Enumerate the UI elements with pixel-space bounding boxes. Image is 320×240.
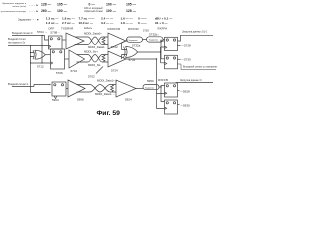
svg-text:7.7 нс ——: 7.7 нс —— <box>79 17 96 21</box>
svg-text:TXDRVR: TXDRVR <box>61 27 74 31</box>
svg-text:0 —: 0 — <box>89 3 96 7</box>
svg-text:MDDI_Str+: MDDI_Str+ <box>84 49 98 53</box>
svg-text:на скорости 2x: на скорости 2x <box>8 42 26 45</box>
svg-text:Задержка: Задержка <box>149 40 159 42</box>
wire xor inputs taps <box>122 42 125 60</box>
flip-flop 5730 <box>165 55 178 69</box>
svg-text:100 —: 100 — <box>57 9 68 13</box>
transistor: TX driver triangle 5710 <box>69 50 85 68</box>
svg-text:260 —: 260 — <box>41 9 52 13</box>
svg-text:100 —: 100 — <box>106 3 117 7</box>
svg-text:Задержка: Задержка <box>145 87 155 89</box>
gate: XOR 5734 <box>124 47 138 58</box>
flip-flop 5904 <box>52 82 66 102</box>
wire ffb q out <box>176 82 213 85</box>
flip-flop 5706 <box>51 49 65 75</box>
svg-text:MDDI_Str-: MDDI_Str- <box>88 63 101 67</box>
svg-text:5904: 5904 <box>52 98 59 102</box>
svg-text:—5730: —5730 <box>181 58 191 62</box>
resistor termination 0 <box>102 37 105 44</box>
label 5702 arrow <box>88 67 103 79</box>
svg-text:—5728: —5728 <box>181 44 191 48</box>
svg-text:Выходной сигнал со смещением: Выходной сигнал со смещением <box>183 66 217 69</box>
wire dff1 to drv <box>66 88 68 90</box>
transistor: RX receiver triangle 5722 <box>108 33 126 49</box>
svg-text:5732a: 5732a <box>132 44 141 48</box>
wire clock branch to xor <box>41 36 43 64</box>
svg-text:1.8 нс —: 1.8 нс — <box>62 17 76 21</box>
wire ffa q out <box>178 35 214 41</box>
svg-text:MDDI_Data0+: MDDI_Data0+ <box>84 32 102 36</box>
resistor termination str <box>102 55 105 62</box>
node: twisted pair str <box>88 55 102 63</box>
node: top table row 3 delays <box>18 17 173 26</box>
svg-text:10.0 нс —: 10.0 нс — <box>79 21 94 25</box>
svg-text:—5928: —5928 <box>180 90 190 94</box>
svg-text:RXFFA: RXFFA <box>158 27 168 31</box>
transistor: RX receiver triangle 5924 <box>116 80 136 97</box>
wire pair str <box>77 55 89 63</box>
svg-text:5724: 5724 <box>111 69 118 73</box>
wire dff0 to drv <box>62 39 66 41</box>
svg-text:5706: 5706 <box>56 71 63 75</box>
svg-text:128 —: 128 — <box>126 9 137 13</box>
node: delay pill 5950 <box>143 85 159 90</box>
node: load data text A <box>182 31 208 34</box>
svg-text:MDDI_Data1-→: MDDI_Data1-→ <box>95 92 115 96</box>
node: delay pill 5732a <box>127 37 143 42</box>
svg-text:5950: 5950 <box>147 79 154 83</box>
svg-text:Входной сигнал 1: Входной сигнал 1 <box>8 83 29 86</box>
svg-text:Входной сигнал 0: Входной сигнал 0 <box>12 32 33 35</box>
svg-text:100 —: 100 — <box>106 9 117 13</box>
wire rcvr0 out <box>126 40 127 42</box>
svg-text:Задержка установления на выход: Задержка установления на выходе <box>0 11 27 13</box>
svg-text:Кабель: Кабель <box>84 27 93 30</box>
node: input signal 0 label <box>8 32 33 45</box>
wire dff str to drv <box>65 58 70 60</box>
svg-text:2.4 — —: 2.4 — — <box>101 17 114 21</box>
svg-text:91 + 0 —: 91 + 0 — <box>155 21 169 25</box>
junction dots <box>30 35 162 93</box>
svg-text:Временная задержка в: Временная задержка в <box>3 3 27 5</box>
node: top table row 2 <box>0 7 137 13</box>
gate: XOR 5712 <box>33 50 45 59</box>
wire input0 <box>12 36 49 41</box>
wire ff2 q out <box>178 58 181 60</box>
node: twisted pair 0 <box>88 37 102 45</box>
wire sample clock <box>8 45 49 47</box>
node: offset output text <box>178 64 220 70</box>
svg-text:5708→: 5708→ <box>51 31 61 35</box>
svg-text:- - - - ►: - - - - ► <box>29 9 39 13</box>
svg-text:0 ——: 0 —— <box>138 17 148 21</box>
wire pair1 <box>77 85 91 93</box>
wire pill1-pill2 <box>143 39 147 41</box>
svg-text:5924: 5924 <box>125 98 132 102</box>
node: top table row 1 <box>3 3 137 9</box>
node: twisted pair 1 <box>90 85 110 93</box>
flip-flop RXFFB 5928 <box>165 83 178 97</box>
svg-text:- - - - ►: - - - - ► <box>29 3 39 7</box>
svg-text:обратный сигнал: обратный сигнал <box>84 10 103 13</box>
wire xor2 out <box>45 54 50 56</box>
node: right clock bus <box>161 47 165 63</box>
svg-text:105 —: 105 — <box>126 3 137 7</box>
label 5728 <box>178 44 192 48</box>
wire bus vertical <box>31 46 51 93</box>
svg-text:0 ——: 0 —— <box>138 21 148 25</box>
flip-flop RXFFA 5728 <box>165 37 178 50</box>
svg-text:RXXOR: RXXOR <box>128 27 140 31</box>
svg-text:Загрузка данных 01 0: Загрузка данных 01 0 <box>182 31 208 34</box>
svg-text:—5930: —5930 <box>180 104 190 108</box>
svg-text:Загрузка данных 0: Загрузка данных 0 <box>180 79 202 82</box>
svg-text:128 —: 128 — <box>41 3 52 7</box>
wire pill2 to ffa <box>161 40 165 59</box>
wire xor out to clock bus <box>138 51 161 53</box>
svg-text:Фиг. 59: Фиг. 59 <box>97 110 121 117</box>
flip-flop 5930 <box>165 100 178 114</box>
svg-text:1.6 — —: 1.6 — — <box>121 17 134 21</box>
node: delay pill 5732b <box>147 37 164 42</box>
wire rcvr1 out <box>136 88 143 90</box>
svg-text:5732b↓: 5732b↓ <box>149 32 159 36</box>
svg-text:1.3 нс —: 1.3 нс — <box>46 17 60 21</box>
svg-text:2.7 нс —: 2.7 нс — <box>62 21 76 25</box>
svg-text:3.2 — —: 3.2 — — <box>101 21 114 25</box>
transistor: RX receiver triangle 5724 <box>108 51 126 67</box>
svg-text:105 —: 105 — <box>57 3 68 7</box>
node: load data text B <box>180 79 202 82</box>
svg-text:5712: 5712 <box>37 65 44 69</box>
svg-text:RXFFB: RXFFB <box>158 78 168 82</box>
svg-text:5710: 5710 <box>71 69 78 73</box>
svg-text:5734: 5734 <box>129 58 136 62</box>
svg-text:MDDI_Data0-: MDDI_Data0- <box>88 45 105 49</box>
node: block type labels row <box>49 27 168 33</box>
wire xor lower input <box>31 53 51 64</box>
svg-text:tBU + 0.1 —: tBU + 0.1 — <box>155 17 173 21</box>
svg-text:RXRCVR: RXRCVR <box>108 27 122 31</box>
wire strobe out <box>126 58 157 60</box>
svg-text:Задержка - - - ►: Задержка - - - ► <box>18 18 40 22</box>
svg-text:1.8 — —: 1.8 — — <box>121 21 134 25</box>
wire input1 <box>12 85 50 93</box>
transistor: TX driver triangle 5906 <box>68 80 85 97</box>
svg-text:5704 →: 5704 → <box>37 30 48 34</box>
flip-flop 5704 <box>37 30 62 49</box>
svg-text:Задержка: Задержка <box>128 40 138 42</box>
wire pill3 to ffb <box>159 86 165 102</box>
svg-text:кабеле (нс/м): кабеле (нс/м) <box>12 6 26 8</box>
svg-text:MDDI_Data1+→: MDDI_Data1+→ <box>97 79 118 83</box>
transistor: TX driver triangle 5708 <box>66 33 84 49</box>
svg-text:5906: 5906 <box>77 98 84 102</box>
wire pair0 <box>75 37 89 45</box>
resistor termination 1 <box>111 85 114 92</box>
svg-text:5702: 5702 <box>88 75 95 79</box>
svg-text:1.3 нс —: 1.3 нс — <box>46 21 60 25</box>
